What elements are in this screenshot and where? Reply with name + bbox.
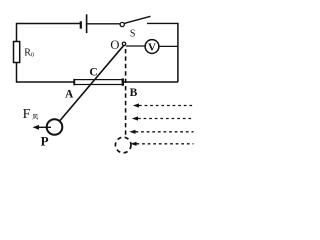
wire: battery to switch	[87, 23, 120, 25]
wire: switch to top-right corner	[147, 22, 178, 24]
pulley ball P	[47, 119, 63, 135]
wire: left side vertical upper	[16, 23, 18, 42]
battery (cell)	[81, 14, 87, 33]
wind arrow 3	[129, 130, 193, 134]
switch S	[120, 16, 150, 26]
voltmeter V	[145, 40, 159, 54]
svg-text:P: P	[41, 133, 49, 148]
slide bar AB	[74, 78, 123, 85]
rod O to pulley	[60, 45, 124, 121]
svg-text:V: V	[148, 41, 156, 53]
svg-text:风: 风	[32, 114, 38, 121]
svg-text:B: B	[130, 87, 138, 99]
wind arrow 1	[133, 103, 194, 107]
resistor R0	[14, 42, 20, 63]
dashed vertical line (rest position)	[125, 49, 127, 137]
wire: right side vertical	[177, 23, 179, 82]
wind arrow 2	[132, 116, 194, 120]
wire: voltmeter right link	[159, 45, 178, 47]
wire: bottom-left segment to bar	[16, 81, 74, 83]
wire: top-left segment to battery	[17, 23, 81, 25]
force arrow F	[33, 125, 52, 130]
dashed circle (ball rest position)	[115, 137, 131, 153]
svg-text:S: S	[130, 28, 136, 39]
wire: left side vertical lower	[16, 63, 18, 83]
svg-text:F: F	[23, 107, 31, 122]
wire: voltmeter left link from pivot	[126, 45, 146, 47]
pivot node O	[122, 42, 125, 45]
wind arrow 4	[130, 142, 193, 146]
wire: bar to bottom-right	[124, 81, 178, 83]
svg-text:O: O	[110, 38, 119, 52]
svg-text:A: A	[65, 88, 74, 100]
